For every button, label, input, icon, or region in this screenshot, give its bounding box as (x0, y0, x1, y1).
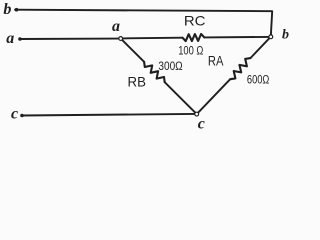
svg-text:RA: RA (208, 52, 224, 68)
wire RB to node c (165, 82, 196, 113)
wire RC to node b (204, 36, 268, 39)
svg-text:600Ω: 600Ω (247, 72, 270, 86)
svg-text:b: b (3, 1, 11, 18)
svg-text:c: c (198, 115, 205, 132)
svg-text:300Ω: 300Ω (158, 59, 182, 73)
wire top rail b (15, 10, 272, 35)
svg-text:100 Ω: 100 Ω (178, 44, 203, 58)
svg-text:b: b (282, 28, 289, 43)
terminal dot c (20, 114, 24, 118)
svg-text:a: a (112, 18, 120, 35)
wire RA to node c (198, 79, 230, 113)
wire a to RB (122, 40, 144, 62)
resistor RA 600 ohm (230, 58, 250, 79)
wire bottom rail c (22, 114, 195, 116)
wire a to RC (123, 37, 183, 40)
resistor RC 100 ohm (183, 34, 205, 41)
svg-text:a: a (6, 30, 14, 47)
node b (269, 35, 273, 39)
terminal dot a (18, 37, 22, 41)
svg-text:RB: RB (128, 73, 146, 89)
svg-text:c: c (11, 105, 18, 122)
node c (195, 112, 199, 116)
terminal dot b (15, 8, 19, 12)
wire a left (20, 38, 119, 40)
resistor RB 300 ohm (144, 62, 165, 82)
node a (119, 37, 123, 41)
svg-text:RC: RC (184, 12, 206, 28)
wire b to RA (250, 38, 269, 58)
